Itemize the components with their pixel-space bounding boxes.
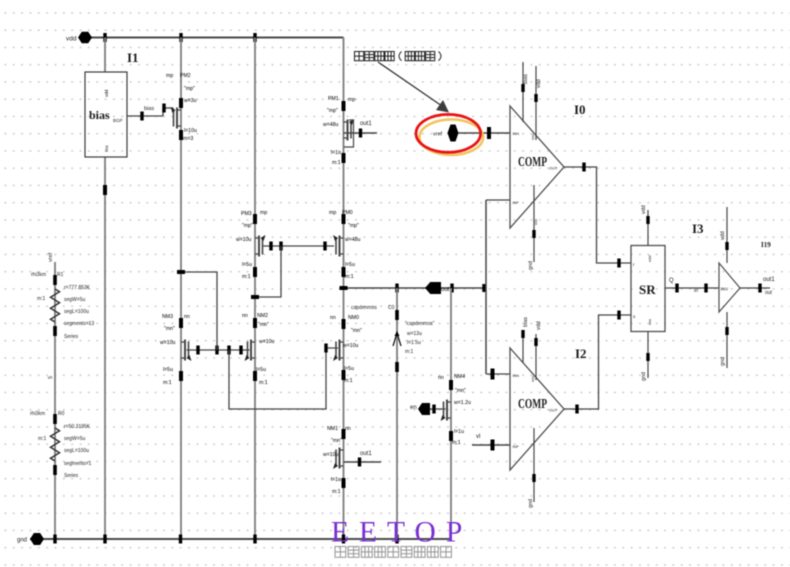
wire comp I2 INN link [486, 373, 510, 375]
svg-text:rhi3km: rhi3km [30, 411, 45, 417]
wire SR Q to INV [665, 287, 719, 289]
svg-text:w=10u: w=10u [236, 237, 252, 243]
svg-text:w=10u: w=10u [323, 452, 339, 458]
svg-text:vss: vss [533, 219, 538, 225]
svg-text:EETOP: EETOP [331, 517, 472, 549]
svg-text:l=5u: l=5u [344, 366, 354, 372]
svg-text:m:1: m:1 [163, 380, 172, 386]
svg-text:segL=100u: segL=100u [64, 309, 89, 315]
wire vdd rail [85, 37, 344, 39]
svg-text:l=5u: l=5u [163, 367, 173, 373]
svg-text:vss: vss [104, 145, 109, 153]
svg-text:bias: bias [523, 74, 529, 84]
svg-text:mp: mp [260, 210, 267, 216]
svg-text:m:1: m:1 [344, 378, 353, 384]
svg-text:w=48u: w=48u [323, 122, 339, 128]
svg-text:m:1: m:1 [332, 160, 341, 166]
wire I2 bias stub [522, 330, 524, 363]
svg-text:vss: vss [647, 319, 652, 325]
svg-text:w=10u: w=10u [259, 339, 275, 345]
svg-text:vss: vss [530, 376, 535, 382]
watermark subtitle 中国电子顶级开发网 [335, 547, 346, 558]
svg-text:"mp": "mp" [327, 108, 338, 114]
wire PM1 gate feedback [344, 120, 354, 147]
wire I2 vdd stub [535, 334, 537, 380]
svg-text:gnd: gnd [720, 357, 726, 366]
wire I0 vdd stub [535, 66, 537, 140]
svg-text:vdd: vdd [647, 256, 652, 262]
svg-text:INP: INP [513, 445, 520, 449]
wire SR gnd stub [647, 331, 649, 378]
wire NM4 column [450, 288, 452, 539]
svg-text:INV: INV [721, 287, 730, 292]
svg-text:l=1.5u: l=1.5u [407, 340, 421, 346]
wire comp I0 INP link [486, 199, 510, 201]
transistor PM3 [253, 214, 257, 224]
junction gnd-NM1 [342, 535, 345, 544]
transistor PM0 [342, 214, 346, 224]
svg-text:"mn": "mn" [331, 438, 342, 444]
wire PMOS mirror gate row [263, 245, 335, 247]
svg-text:NM4: NM4 [454, 374, 465, 380]
svg-text:segW=5u: segW=5u [64, 297, 85, 303]
svg-text:l=10u: l=10u [184, 128, 197, 134]
svg-text:segW=5u: segW=5u [64, 436, 85, 442]
svg-text:Series: Series [64, 334, 79, 340]
wire bias output [127, 115, 163, 117]
inverter INV I19 [719, 263, 740, 312]
svg-text:m:1: m:1 [332, 489, 341, 495]
annotation arrow [378, 62, 442, 106]
wire gnd rail [30, 538, 451, 540]
junction gnd-NM3 [179, 535, 182, 544]
wire I2 gnd stub [533, 428, 535, 502]
svg-text:out1: out1 [763, 277, 775, 283]
svg-text:Series: Series [64, 473, 79, 479]
svg-text:out: out [441, 287, 450, 293]
svg-text:vdd: vdd [536, 321, 542, 330]
svg-text:R0: R0 [58, 411, 65, 417]
svg-text:OUT: OUT [549, 167, 558, 171]
resistor R0 [53, 414, 57, 424]
svg-text:gnd: gnd [641, 372, 647, 381]
svg-text:nn: nn [184, 314, 190, 320]
svg-text:m:1: m:1 [259, 380, 268, 386]
svg-text:"capdenmos": "capdenmos" [405, 321, 435, 327]
wire I2 out to SR s [564, 315, 631, 409]
wire vref to comp INN [459, 132, 511, 134]
wire stub bias-vss [103, 185, 107, 195]
wire INV out [740, 287, 770, 289]
svg-text:w=48u: w=48u [345, 237, 361, 243]
svg-text:nn: nn [438, 375, 444, 381]
svg-text:I1: I1 [127, 50, 139, 65]
svg-text:gnd: gnd [17, 538, 27, 544]
svg-text:l=1u: l=1u [454, 429, 464, 435]
op-amp COMP I2 [510, 348, 564, 470]
svg-text:capdenmos: capdenmos [351, 305, 377, 311]
svg-text:PM3: PM3 [241, 211, 252, 217]
transistor NM1 [342, 429, 346, 439]
junction gnd-bias [103, 535, 106, 544]
svg-text:NM0: NM0 [348, 315, 359, 321]
svg-text:"mp": "mp" [242, 223, 253, 229]
svg-text:vss: vss [530, 134, 535, 140]
wire INV gnd stub [726, 312, 728, 368]
transistor NM2 [253, 318, 257, 328]
svg-text:nn: nn [330, 315, 336, 321]
svg-text:I3: I3 [692, 221, 704, 236]
svg-text:en: en [410, 405, 417, 411]
svg-text:"mp": "mp" [348, 223, 359, 229]
svg-text:"mn": "mn" [455, 388, 466, 394]
transistor PM2 [179, 98, 183, 108]
op-amp bias block I1 [85, 72, 127, 157]
svg-text:out1: out1 [360, 451, 372, 457]
svg-text:"mn": "mn" [164, 326, 175, 332]
svg-text:mp: mp [348, 97, 355, 103]
svg-text:NM2: NM2 [257, 313, 268, 319]
annotation 带隙基准（带缓冲） [355, 52, 364, 61]
svg-text:NM1: NM1 [327, 426, 338, 432]
svg-text:PM2: PM2 [180, 73, 191, 79]
svg-text:INN: INN [513, 132, 520, 136]
svg-text:vref: vref [433, 132, 443, 138]
transistor NM0 [342, 319, 346, 329]
transistor NM3 [179, 318, 183, 328]
wire column PM3/NM2 x=255 [254, 38, 256, 540]
wire out1 tap (top) [344, 132, 378, 134]
svg-text:nn: nn [242, 313, 248, 319]
wire NM0 gate detour [229, 348, 338, 409]
flip-flop SR I3 [631, 246, 665, 332]
svg-text:nn: nn [345, 426, 351, 432]
wire junction vdd-bias [103, 33, 106, 42]
svg-text:l=5u: l=5u [345, 262, 355, 268]
svg-text:gnd: gnd [528, 261, 534, 270]
junction gnd-R0 [53, 535, 56, 544]
svg-text:INP: INP [513, 201, 520, 205]
wire out to comparator inputs [485, 200, 487, 374]
svg-text:m:1: m:1 [37, 296, 46, 302]
svg-text:m=3: m=3 [183, 136, 193, 142]
svg-text:w=10u: w=10u [160, 340, 176, 346]
net vl wire [472, 444, 510, 446]
svg-text:mp: mp [166, 73, 173, 79]
svg-text:"mn": "mn" [351, 328, 362, 334]
svg-text:l=1u: l=1u [331, 150, 341, 156]
transistor PM1 [342, 101, 346, 111]
resistor R1 [53, 275, 57, 285]
svg-text:bias: bias [144, 106, 154, 112]
wire out1 tap (bottom) [344, 461, 382, 463]
capacitor C0 capdenmos [396, 288, 398, 539]
wire vref resistor column x=55 [54, 262, 56, 539]
svg-text:PM1: PM1 [328, 96, 339, 102]
svg-text:vdd: vdd [641, 205, 647, 214]
svg-text:r=777.853K: r=777.853K [64, 285, 91, 291]
svg-text:segments=13: segments=13 [64, 321, 94, 327]
svg-text:l=1u: l=1u [331, 477, 341, 483]
svg-text:COMP: COMP [518, 154, 547, 169]
junction out-C0 [395, 284, 398, 293]
wire I0 out to SR r [564, 167, 631, 263]
svg-text:OUT: OUT [549, 409, 558, 413]
svg-text:Q: Q [669, 278, 674, 284]
wire NMOS mirror gate row [187, 349, 250, 351]
wire SR vdd stub [647, 210, 649, 246]
wire I0 gnd stub [533, 185, 535, 262]
svg-text:COMP: COMP [518, 396, 547, 411]
svg-text:w=13u: w=13u [407, 331, 422, 337]
svg-text:m:1: m:1 [242, 274, 251, 280]
svg-text:out1: out1 [360, 121, 372, 127]
junction gnd-NM2 [253, 535, 256, 544]
svg-text:vdd: vdd [720, 231, 726, 240]
svg-text:vref: vref [48, 252, 54, 262]
svg-text:gnd: gnd [528, 499, 534, 508]
svg-text:vdd: vdd [104, 89, 109, 97]
svg-text:"mn": "mn" [258, 322, 269, 328]
svg-text:R1: R1 [57, 272, 64, 278]
svg-text:l=5u: l=5u [242, 262, 252, 268]
wire column PM2/NM3 x=181 [180, 38, 182, 540]
svg-text:5: 5 [48, 376, 54, 379]
wire junction vdd-PM3 [253, 33, 256, 42]
svg-text:mp: mp [329, 210, 336, 216]
svg-text:in: in [694, 288, 698, 294]
wire column bias x=105 [104, 38, 106, 73]
svg-text:w=3u: w=3u [184, 98, 197, 104]
svg-text:m:1: m:1 [345, 274, 354, 280]
svg-text:"mp": "mp" [184, 86, 195, 92]
svg-text:PM0: PM0 [342, 210, 353, 216]
highlight ellipse (yellow shadow) [420, 119, 484, 155]
svg-text:I19: I19 [761, 241, 771, 249]
wire I0 bias stub [522, 62, 524, 122]
wire INV vdd stub [726, 207, 728, 263]
svg-text:vdd: vdd [66, 36, 77, 43]
svg-text:out: out [765, 290, 773, 296]
svg-text:m:1: m:1 [405, 349, 414, 355]
svg-text:I0: I0 [574, 102, 586, 117]
svg-text:NM3: NM3 [162, 314, 173, 320]
op-amp COMP I0 [510, 106, 564, 228]
junction gnd-C0 [395, 535, 398, 544]
wire junction vdd-PM2 [179, 33, 182, 42]
svg-text:vl: vl [476, 434, 480, 440]
svg-text:segL=100u: segL=100u [64, 448, 89, 454]
svg-text:bias: bias [89, 108, 110, 122]
wire column PM1/PM0/NM0/NM1 x=343.5 [343, 38, 345, 540]
svg-text:BGP: BGP [113, 118, 123, 123]
svg-text:w=10u: w=10u [343, 343, 359, 349]
svg-text:r=50.3195K: r=50.3195K [64, 424, 91, 430]
svg-text:I2: I2 [575, 346, 587, 361]
svg-text:l=5u: l=5u [256, 367, 266, 373]
wire out node row [344, 287, 487, 289]
svg-text:m:1: m:1 [452, 440, 461, 446]
wire PM3 gate-drain jog [255, 246, 281, 297]
svg-text:vdd: vdd [536, 79, 542, 88]
svg-text:rhi3km: rhi3km [31, 272, 46, 278]
node out pin [425, 282, 441, 294]
wire NM3 gate-drain jog [181, 272, 217, 350]
svg-text:C0: C0 [388, 305, 395, 311]
svg-text:SR: SR [639, 282, 656, 297]
svg-text:w=1.2u: w=1.2u [454, 400, 471, 406]
svg-text:segments=1: segments=1 [64, 461, 92, 467]
highlight ellipse (red) [416, 114, 481, 152]
junction out-comp [482, 284, 485, 292]
transistor NM4 [449, 380, 453, 390]
wire en to NM4 gate [430, 408, 446, 410]
svg-text:INN: INN [513, 374, 520, 378]
junction out-NM4 [450, 284, 453, 293]
svg-text:m:1: m:1 [38, 436, 47, 442]
svg-text:bias: bias [523, 317, 529, 327]
